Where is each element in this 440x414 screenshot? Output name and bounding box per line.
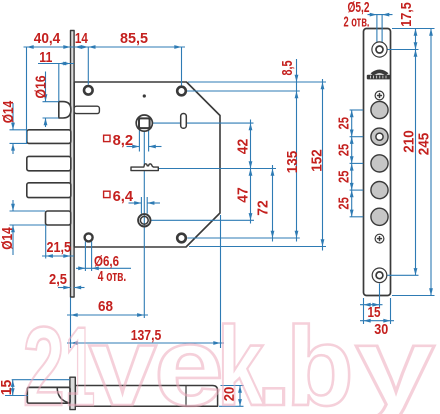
svg-text:152: 152 <box>309 149 325 172</box>
svg-text:2 отв.: 2 отв. <box>344 14 370 30</box>
svg-text:Ø14: Ø14 <box>1 100 17 123</box>
svg-text:2,5: 2,5 <box>49 272 67 288</box>
svg-text:Ø6,6: Ø6,6 <box>94 254 119 270</box>
svg-text:85,5: 85,5 <box>120 31 148 47</box>
svg-text:25: 25 <box>336 144 352 157</box>
svg-text:25: 25 <box>336 117 352 130</box>
svg-text:15: 15 <box>0 380 15 396</box>
svg-text:e: e <box>154 304 224 414</box>
svg-text:Ø14: Ø14 <box>0 227 16 250</box>
svg-text:21,5: 21,5 <box>47 240 72 256</box>
svg-text:v: v <box>89 304 157 414</box>
svg-text:b: b <box>286 304 354 414</box>
svg-text:210: 210 <box>401 130 417 153</box>
svg-text:40,4: 40,4 <box>34 31 61 47</box>
svg-text:25: 25 <box>336 170 352 183</box>
svg-text:42: 42 <box>235 139 251 155</box>
svg-text:25: 25 <box>336 197 352 210</box>
svg-text:Ø16: Ø16 <box>33 76 49 99</box>
svg-text:6,4: 6,4 <box>113 189 134 205</box>
svg-text:8,5: 8,5 <box>280 61 296 76</box>
svg-text:245: 245 <box>416 133 432 156</box>
svg-text:14: 14 <box>75 31 89 47</box>
svg-text:4 отв.: 4 отв. <box>98 269 127 285</box>
svg-text:2: 2 <box>23 304 65 414</box>
svg-text:47: 47 <box>235 187 251 203</box>
svg-text:y: y <box>355 304 435 414</box>
svg-text:135: 135 <box>285 151 301 174</box>
svg-text:8,2: 8,2 <box>113 133 134 149</box>
svg-text:17,5: 17,5 <box>399 2 415 27</box>
svg-text:72: 72 <box>255 200 271 216</box>
svg-text:11: 11 <box>39 50 52 66</box>
